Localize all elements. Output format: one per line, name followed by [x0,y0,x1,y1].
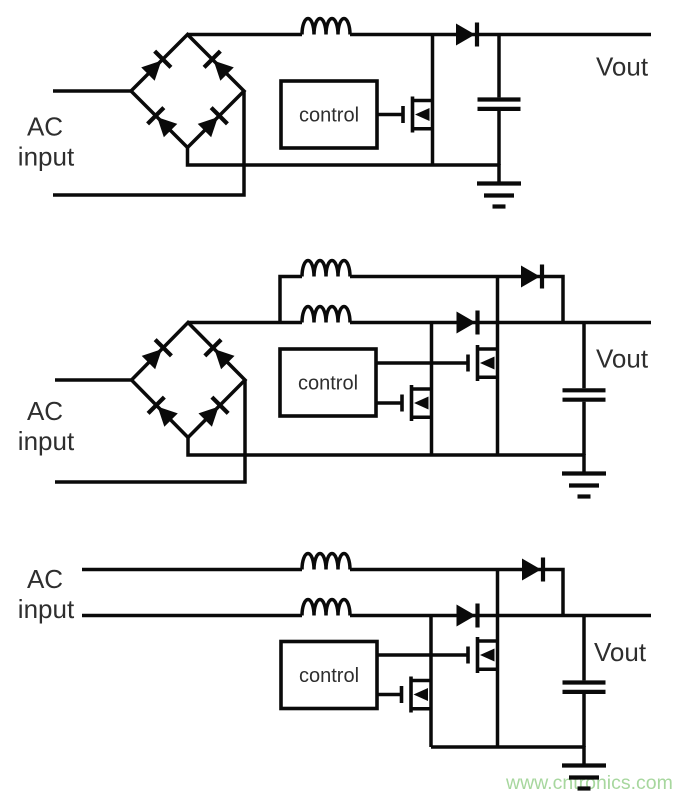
capacitor C3 top lead [582,616,586,681]
capacitor C1 [478,100,521,109]
transistor Q3 drain-source vertical (phase 2) [430,323,434,456]
capacitor C1 top lead [497,35,501,98]
transistor Q3 MOSFET [402,385,432,421]
transistor Q4 MOSFET [468,637,498,673]
svg-text:Vout: Vout [596,344,649,374]
svg-text:input: input [18,594,75,624]
wire AC line 2 (bottom) to bridge right vertex [53,91,244,195]
capacitor C2 [563,390,606,399]
diode BR2 top-left [140,340,171,371]
ground [562,454,606,497]
wire rail 2 right of inductor to Vout [350,321,651,325]
diode D1 boost [456,23,477,47]
svg-text:control: control [298,373,358,395]
diode BR2 bottom-right [197,397,228,428]
diode D3 phase 2 [457,311,478,335]
wire AC line 2 left of inductor [82,614,302,618]
wire gate lead Q5 [377,693,402,697]
wire bottom rail [431,745,584,749]
diode BR2 bottom-left [148,397,179,428]
wire AC line 2 (bottom) to bridge right vertex [55,380,245,482]
diode D2 phase 1 [521,265,542,289]
capacitor C3 [563,683,606,692]
capacitor C3 bottom lead [582,694,586,747]
wire top rail left of inductor [188,33,303,37]
wire bottom rail [188,148,500,166]
wire phase-1 rail with riser and output corner [280,277,563,323]
wire AC line 2 right of inductor to Vout [350,614,651,618]
transistor Q5 MOSFET [402,677,432,713]
diode BR1 top-right [204,51,235,82]
transistor Q1 drain-source vertical [431,35,435,166]
transistor Q2 MOSFET [468,345,498,381]
diode D5 [457,604,478,628]
diode D4 [522,558,543,582]
inductor L1 [302,19,350,35]
capacitor C2 bottom lead [582,402,586,455]
capacitor C2 top lead [582,323,586,389]
svg-text:www.cntronics.com: www.cntronics.com [505,772,673,794]
inductor L3 phase 2 [302,307,350,323]
control box U1 [281,81,377,148]
wire top rail right of inductor [350,33,651,37]
wire gate lead Q2 [376,361,468,365]
svg-text:AC: AC [27,564,63,594]
svg-text:AC: AC [27,112,63,142]
capacitor C1 bottom lead [497,111,501,165]
wire AC line 1 right of inductor with corner to rail [350,570,563,616]
inductor L2 phase 1 [302,261,350,277]
wire bottom rail [188,438,584,456]
bridge rectifier BR1 diamond [131,35,244,148]
diode BR1 bottom-left [148,108,179,139]
wire AC line 1 left of inductor [82,568,302,572]
diode BR1 bottom-right [196,108,227,139]
svg-text:Vout: Vout [594,637,647,667]
wire gate lead Q3 [376,401,402,405]
wire AC line 1 (top) [55,378,132,382]
transistor Q1 MOSFET [403,97,433,133]
svg-text:AC: AC [27,396,63,426]
wire gate lead Q1 [377,113,403,117]
svg-text:Vout: Vout [596,52,649,82]
svg-text:input: input [18,426,75,456]
diode BR1 top-left [140,51,171,82]
transistor Q5 drain-source vertical [429,616,433,748]
inductor L4 [302,554,350,570]
control box U3 [281,642,377,709]
svg-text:input: input [18,142,75,172]
wire AC line 1 (top) [53,89,131,93]
transistor Q2 drain-source vertical (phase 1) [496,277,500,456]
bridge rectifier BR2 diamond [132,323,246,438]
ground [562,746,606,789]
wire gate lead Q4 [377,653,468,657]
svg-text:control: control [299,665,359,687]
diode BR2 top-right [205,340,236,371]
ground [477,164,521,207]
svg-text:control: control [299,105,359,127]
inductor L5 [302,600,350,616]
transistor Q4 drain-source vertical [496,570,500,748]
wire rail 2 left of inductor [188,321,302,325]
control box U2 [280,349,376,416]
